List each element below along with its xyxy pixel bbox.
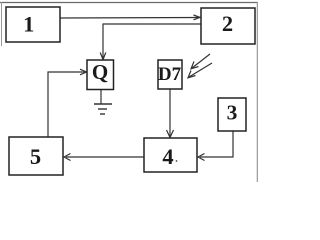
svg-text:2: 2 [222,11,233,36]
svg-text:3: 3 [227,101,238,125]
svg-text:4: 4 [162,144,173,169]
svg-text:5: 5 [30,144,41,169]
svg-text:D7: D7 [158,64,182,85]
svg-text:1: 1 [23,12,34,37]
svg-text:Q: Q [92,60,108,84]
